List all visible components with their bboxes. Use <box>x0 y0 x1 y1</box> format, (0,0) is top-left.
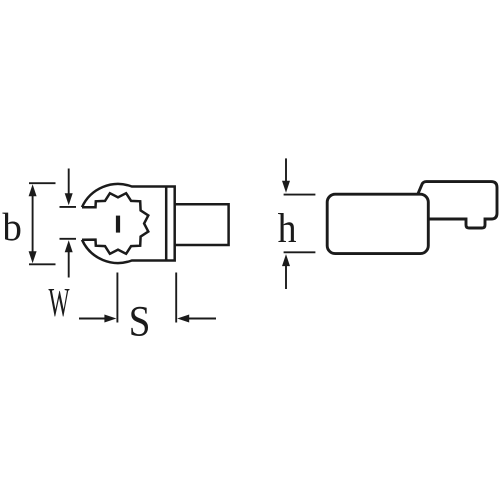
label S <box>131 307 148 336</box>
joint line between ring head and square end <box>165 187 168 261</box>
label W <box>49 289 70 317</box>
ring 12-point inner profile with open slot <box>82 193 148 254</box>
dimension W: two ticks and inward arrows at ring slot <box>60 169 77 278</box>
label b <box>2 213 20 241</box>
dimension b: vertical line with outward arrows <box>29 183 56 264</box>
dimension h: arrows and ticks (right view) <box>284 158 316 289</box>
ring head outer outline (left view) <box>82 184 175 263</box>
label h <box>278 213 296 242</box>
dimension S: extension lines and inward arrows under tang <box>79 273 216 323</box>
center tick mark inside ring <box>116 216 120 233</box>
side view body (rounded rectangle) <box>327 194 428 253</box>
side view head shape (right view) <box>327 182 497 254</box>
rectangular tang (left view) <box>175 204 229 245</box>
